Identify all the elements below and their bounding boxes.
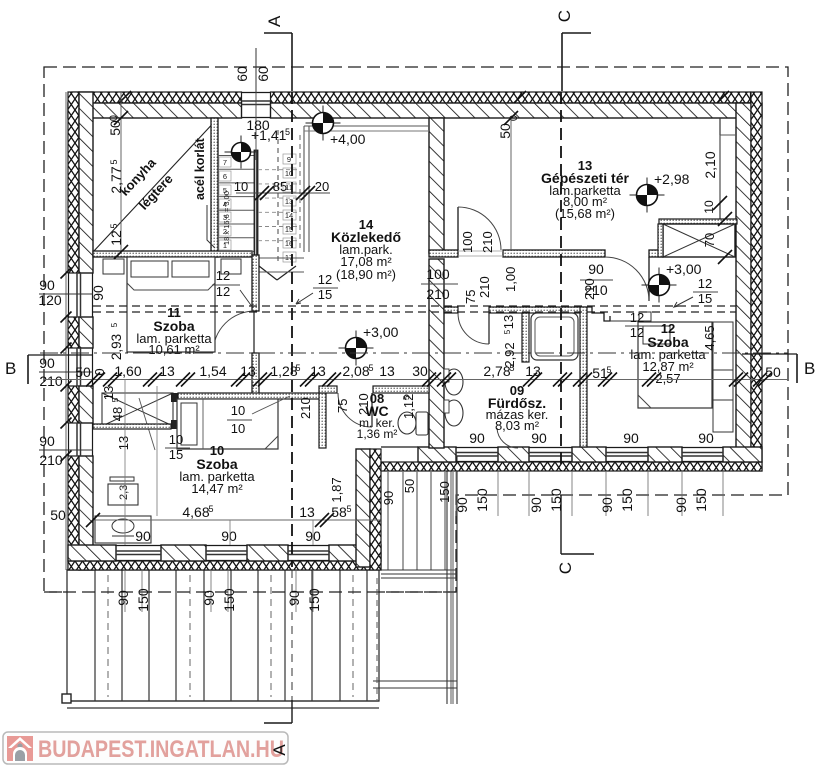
svg-text:90: 90 [673,497,689,513]
svg-text:90: 90 [39,277,55,293]
section C top [562,32,591,34]
svg-text:5: 5 [346,504,351,514]
svg-text:1,00: 1,00 [503,267,518,292]
svg-text:18 x 16,6 = 3,00: 18 x 16,6 = 3,00 [222,191,231,245]
svg-text:5: 5 [109,159,119,164]
svg-text:15: 15 [698,291,712,306]
left wall windows [68,273,70,317]
svg-text:15: 15 [169,447,183,462]
svg-text:1,87: 1,87 [329,477,344,502]
left exterior wall [68,92,79,273]
svg-text:1,36 m²: 1,36 m² [357,427,398,441]
svg-text:5: 5 [111,397,120,402]
section C bottom [560,495,562,554]
dresser room 10 [95,516,151,543]
svg-text:14,47 m²: 14,47 m² [191,481,243,496]
left outer dim chain [65,92,67,570]
bed room 11 [127,257,215,352]
svg-text:50: 50 [402,479,417,493]
svg-text:90: 90 [135,528,151,544]
svg-text:13: 13 [501,315,516,329]
svg-text:+3,00: +3,00 [363,324,399,340]
svg-text:9: 9 [287,155,291,164]
section B right [742,353,797,355]
svg-text:12: 12 [630,325,644,340]
svg-text:210: 210 [480,231,495,253]
svg-text:210: 210 [477,276,492,298]
svg-text:90: 90 [201,590,217,606]
svg-text:2,08: 2,08 [342,363,369,379]
ceiling beam dashed lines [93,305,736,307]
right flight step boxes 9-17 [283,154,296,164]
svg-text:90: 90 [90,285,106,301]
svg-text:70: 70 [702,233,717,247]
svg-text:5: 5 [402,395,411,400]
svg-text:50: 50 [107,120,123,136]
top wall window [242,92,271,94]
svg-text:+2,98: +2,98 [654,171,690,187]
svg-text:5: 5 [606,365,611,375]
section A dashed through building [291,92,293,567]
svg-text:6: 6 [223,172,227,181]
desk room 10 [108,484,138,505]
svg-text:90: 90 [381,491,396,505]
central wall upper [429,118,444,253]
east wall of lower-left section [356,449,370,567]
central wall lower [429,259,444,448]
svg-text:150: 150 [306,588,322,612]
svg-text:A: A [265,15,284,27]
terrace corner post [62,694,71,703]
bed room 10 [177,399,278,449]
svg-text:13: 13 [525,363,541,379]
svg-text:13: 13 [379,363,395,379]
bath top thin wall + door [444,307,458,313]
side steps [387,472,389,570]
room 13 inner face line [719,118,721,219]
svg-text:58: 58 [331,504,347,520]
svg-text:12: 12 [216,268,230,283]
svg-text:90: 90 [39,433,55,449]
svg-text:50: 50 [50,507,66,523]
svg-text:12: 12 [630,310,644,325]
top 60/60 dim [255,48,257,92]
svg-text:13: 13 [116,436,131,450]
svg-text:90: 90 [698,430,714,446]
svg-text:150: 150 [548,488,564,512]
svg-text:50: 50 [75,364,91,380]
room11 right wall [252,255,259,311]
stair treads left flight [218,155,254,157]
svg-text:90: 90 [623,430,639,446]
svg-text:210: 210 [298,397,313,419]
logo house icon [7,736,33,761]
svg-text:10,61 m²: 10,61 m² [148,342,200,357]
svg-text:1,60: 1,60 [114,363,141,379]
svg-text:5: 5 [295,363,300,373]
svg-text:5: 5 [368,363,373,373]
stair dims 10 85 20 [236,192,330,194]
terrace dims rotated [124,570,126,612]
wardrobe room 12 [713,322,733,432]
bottom wall (right section) [381,462,762,471]
svg-text:(15,68 m²): (15,68 m²) [555,206,615,221]
bath/room12 wall [580,307,587,447]
section A bottom [291,700,293,723]
svg-text:90: 90 [39,355,55,371]
svg-text:85: 85 [273,179,287,194]
svg-text:10: 10 [702,200,716,214]
svg-text:B: B [5,359,16,378]
svg-text:20: 20 [315,179,329,194]
svg-text:90: 90 [588,261,604,277]
hall/room13 dividing wall [429,250,458,257]
svg-text:2,93: 2,93 [109,334,124,360]
konyha/stair wall [211,118,218,257]
svg-text:50: 50 [497,123,513,139]
logo box [3,732,288,764]
toilet [398,412,416,434]
svg-text:90: 90 [115,590,131,606]
svg-text:5: 5 [110,322,119,327]
main dim chain y=379 [44,379,788,381]
svg-text:10: 10 [234,179,248,194]
svg-text:1,28: 1,28 [270,363,297,379]
level +4,00 [306,122,341,124]
svg-text:180: 180 [246,117,270,133]
landing railing [303,126,305,252]
svg-text:4,65: 4,65 [702,325,717,350]
svg-text:2,77: 2,77 [108,166,124,193]
svg-text:90: 90 [454,497,470,513]
svg-text:150: 150 [437,481,452,503]
svg-text:90: 90 [599,497,615,513]
svg-text:120: 120 [38,292,62,308]
level +2,98 [630,194,665,196]
door to room 13 [457,207,459,250]
svg-text:12: 12 [108,230,124,246]
svg-text:210: 210 [426,286,450,302]
ventilation shaft with cross [663,224,735,257]
svg-text:210: 210 [39,452,63,468]
svg-text:48: 48 [110,407,125,421]
svg-text:150: 150 [135,588,151,612]
svg-text:150: 150 [474,488,490,512]
svg-text:0: 0 [92,368,107,375]
site/roof dashed boundary [44,67,788,592]
right exterior wall [736,103,751,462]
terrace decking [67,570,379,701]
room 11 door [213,311,255,353]
svg-text:75: 75 [463,290,478,304]
washbasins [445,369,463,395]
svg-text:150: 150 [619,488,635,512]
nightstands room 11 [103,259,124,274]
shower tray [531,313,578,360]
svg-text:60: 60 [255,66,271,82]
shower partition [522,313,529,362]
svg-text:60: 60 [234,66,250,82]
svg-text:(18,90 m²): (18,90 m²) [336,267,396,282]
svg-text:5: 5 [285,127,290,137]
stair dashed lines [277,130,279,265]
crossed opening below room 11 [102,393,173,426]
svg-text:BUDAPEST.INGATLAN.HU: BUDAPEST.INGATLAN.HU [38,736,284,763]
section C dashed through building [560,92,562,471]
svg-text:+4,00: +4,00 [330,131,366,147]
svg-text:15: 15 [318,287,332,302]
shaft top thin wall [659,219,737,224]
svg-text:210: 210 [356,393,371,415]
svg-text:90: 90 [286,590,302,606]
svg-text:1,54: 1,54 [199,363,226,379]
svg-text:100: 100 [460,231,475,253]
svg-text:13: 13 [240,363,256,379]
svg-text:12: 12 [318,272,332,287]
walk line arrow [259,266,277,280]
2,10 right dim [719,135,721,203]
svg-text:10: 10 [231,403,245,418]
svg-text:2,92: 2,92 [502,342,517,367]
nightstand room 12 [639,312,651,321]
bottom wall (left section) [68,561,381,570]
svg-text:4,68: 4,68 [182,504,209,520]
svg-text:C: C [555,10,574,22]
stair center stringer [254,150,258,257]
svg-text:210: 210 [582,278,597,300]
svg-text:2,3: 2,3 [118,485,130,500]
svg-text:5: 5 [208,504,213,514]
level +3,00 hall [339,347,374,349]
lower winders [259,257,304,259]
svg-text:B: B [804,359,815,378]
top exterior wall [68,92,762,118]
svg-text:A: A [270,744,289,756]
svg-text:2,10: 2,10 [702,151,718,178]
svg-text:5: 5 [109,223,119,228]
stair numbers 1-7 [219,240,231,250]
WC top wall + door [319,386,337,393]
svg-text:12: 12 [216,284,230,299]
bath door lower [497,428,518,448]
svg-text:50: 50 [765,364,781,380]
svg-text:100: 100 [426,266,450,282]
svg-text:75: 75 [335,399,350,413]
svg-text:12: 12 [698,276,712,291]
svg-text:10: 10 [169,432,183,447]
svg-text:+3,00: +3,00 [666,261,702,277]
svg-text:90: 90 [531,430,547,446]
svg-text:150: 150 [221,588,237,612]
door to room 12 [648,257,650,301]
bed room 12 [638,322,712,408]
svg-text:13: 13 [159,363,175,379]
svg-text:C: C [556,562,575,574]
svg-text:90: 90 [469,430,485,446]
right section bottom dims rotated [455,471,457,516]
section A top [264,32,292,34]
level +1,41 [225,151,258,153]
room 11 top thin wall [93,251,252,257]
180 dim [255,92,257,160]
svg-text:30: 30 [412,363,428,379]
svg-text:13: 13 [310,363,326,379]
svg-text:150: 150 [693,488,709,512]
section B line dash-dot [40,352,788,354]
svg-text:acél korlát: acél korlát [193,137,207,200]
level +3,00 east [642,284,677,286]
svg-text:90: 90 [528,497,544,513]
room12 niche step [587,307,610,321]
svg-text:7: 7 [223,158,227,167]
svg-text:13: 13 [299,504,315,520]
room10 area dims [93,519,381,521]
konyha legtere void [93,118,218,252]
room10/11 thin walls [93,424,171,429]
WC left wall [319,393,326,448]
svg-text:210: 210 [39,373,63,389]
svg-text:90: 90 [221,528,237,544]
svg-text:10: 10 [231,421,245,436]
dim 50 top left [120,92,122,252]
